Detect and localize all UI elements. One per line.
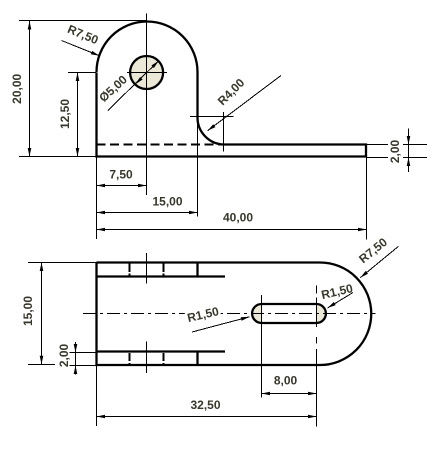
svg-text:40,00: 40,00 (223, 210, 253, 224)
svg-text:20,00: 20,00 (10, 73, 24, 103)
svg-text:R4,00: R4,00 (215, 75, 248, 108)
svg-text:7,50: 7,50 (109, 168, 133, 182)
svg-text:15,00: 15,00 (21, 296, 35, 326)
svg-text:Ø5,00: Ø5,00 (96, 72, 130, 104)
svg-text:2,00: 2,00 (57, 343, 71, 367)
svg-text:R1,50: R1,50 (320, 281, 355, 302)
svg-text:12,50: 12,50 (58, 99, 72, 129)
svg-text:8,00: 8,00 (274, 374, 298, 388)
svg-text:R7,50: R7,50 (356, 235, 390, 266)
svg-text:2,00: 2,00 (388, 139, 402, 163)
svg-text:32,50: 32,50 (190, 398, 220, 412)
svg-text:15,00: 15,00 (152, 195, 182, 209)
svg-text:R7,50: R7,50 (65, 22, 100, 47)
